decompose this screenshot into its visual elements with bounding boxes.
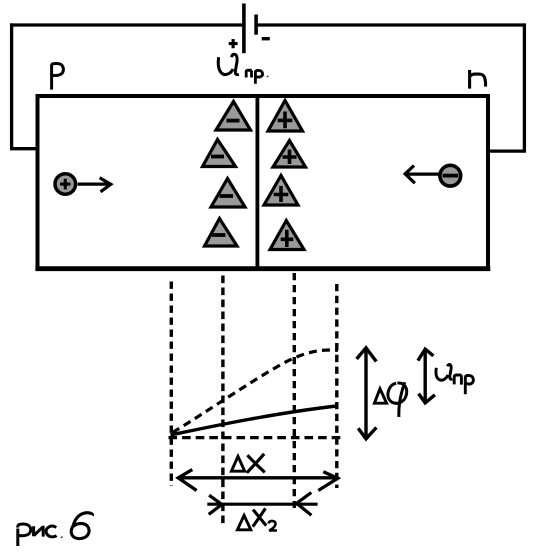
arrow delta-X (double horizontal) <box>179 476 338 479</box>
arrow hole motion <box>78 183 109 186</box>
wire left vertical <box>10 23 13 148</box>
donor ion D3 <box>264 176 298 206</box>
wire left to box <box>10 147 37 150</box>
battery label + <box>229 39 238 48</box>
battery B1 plate short (-) <box>254 15 258 35</box>
arrow delta-phi (double vertical) <box>364 349 367 438</box>
junction line <box>255 96 259 268</box>
wire right to box <box>489 149 527 152</box>
arrow Uпр (double vertical) <box>424 350 427 403</box>
dashed potential baseline <box>169 436 342 439</box>
label p <box>52 63 64 89</box>
dashed projection line 2 <box>221 276 224 524</box>
label delta-X <box>231 456 244 471</box>
label delta-X2 <box>237 515 250 529</box>
caption рис. б <box>18 513 93 546</box>
arrow electron motion <box>407 173 439 176</box>
potential curve equilibrium (dashed) <box>173 350 339 433</box>
electron (- carrier) <box>440 165 461 186</box>
label n <box>470 70 486 89</box>
donor ion D4 <box>270 221 304 250</box>
acceptor ion A4 <box>205 219 238 247</box>
acceptor ion A1 <box>216 102 251 131</box>
wire right vertical <box>523 23 526 151</box>
donor ion D1 <box>268 101 303 132</box>
wire top-right <box>257 23 524 26</box>
dashed projection line 1 <box>170 282 173 487</box>
acceptor ion A3 <box>211 179 245 208</box>
wire top-left <box>10 23 242 26</box>
label Uпр. (battery voltage) <box>218 54 268 84</box>
battery label - <box>262 37 270 40</box>
dashed projection line 3 <box>293 273 296 508</box>
battery B1 plate long (+) <box>242 4 246 54</box>
donor ion D2 <box>273 141 306 168</box>
hole (+ carrier) <box>55 174 76 195</box>
acceptor ion A2 <box>203 140 236 167</box>
label delta-phi <box>374 389 386 404</box>
arrow delta-X2 (between lines 2 and 3) <box>207 503 317 506</box>
label Uпр (right) <box>436 364 473 394</box>
dashed projection line 4 <box>335 284 338 488</box>
potential curve forward bias (solid) <box>171 406 337 435</box>
semiconductor body box <box>36 94 491 98</box>
